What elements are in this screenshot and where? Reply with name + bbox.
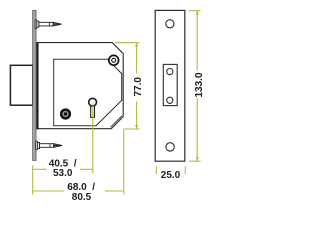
- chamfer inner edge: [111, 116, 122, 128]
- cutout hole top: [167, 69, 173, 75]
- cutout hole bottom: [167, 97, 173, 103]
- case inner 3d edge (right): [96, 65, 122, 126]
- inner cover panel: [54, 59, 109, 126]
- dim 40.5/53.0 extension left: [32, 165, 34, 194]
- bolt: [10, 65, 32, 105]
- dim arrows: [135, 11, 199, 162]
- dim 40.5/53.0 line: [33, 168, 47, 170]
- dim 133.0 line: [196, 11, 198, 71]
- dim 25.0 ticks: [155, 166, 157, 174]
- keyhole: [91, 103, 95, 117]
- svg-text:80.5: 80.5: [72, 192, 92, 203]
- svg-text:133.0: 133.0: [194, 72, 205, 97]
- lock case body: [37, 43, 123, 129]
- plate hole top: [166, 20, 174, 28]
- dim 68.0/80.5 extension right: [123, 130, 125, 195]
- bolt cutout: [163, 64, 177, 105]
- svg-text:25.0: 25.0: [161, 170, 181, 181]
- dim 77.0 line: [136, 43, 138, 74]
- forend plate (side view): [33, 10, 37, 160]
- fixing pin top: [35, 20, 61, 29]
- screw U1 top-right: [109, 55, 119, 65]
- svg-text:53.0: 53.0: [53, 168, 73, 179]
- dim 40.5/53.0 extension keyhole: [92, 104, 94, 174]
- dim 68.0/80.5 line: [33, 190, 65, 192]
- dim 77.0 ticks: [115, 42, 140, 44]
- plate hole bottom: [166, 143, 174, 151]
- strike plate: [155, 10, 185, 161]
- svg-text:77.0: 77.0: [133, 77, 144, 97]
- fixing pin bottom: [36, 141, 62, 150]
- dim 133.0 ticks: [189, 10, 201, 12]
- case front (left) thick edge: [37, 42, 39, 129]
- screw bottom-left: [60, 108, 71, 119]
